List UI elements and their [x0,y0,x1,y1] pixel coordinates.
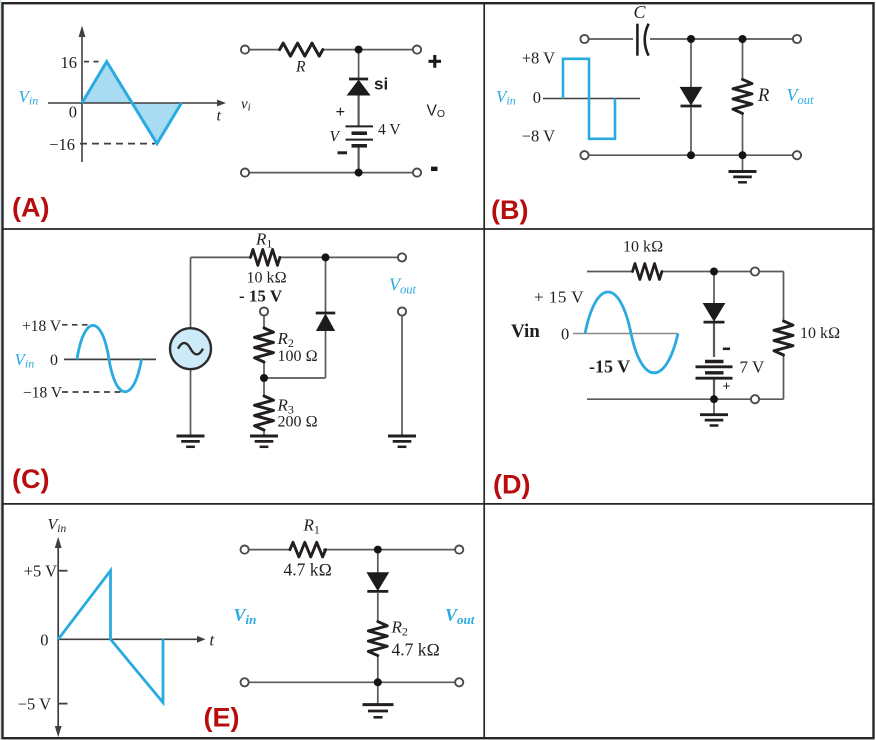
svg-text:+5 V: +5 V [24,562,57,581]
svg-text:4.7 kΩ: 4.7 kΩ [284,560,332,580]
svg-text:4 V: 4 V [378,122,401,139]
svg-text:−18 V: −18 V [23,384,63,401]
svg-text:Vin: Vin [511,321,540,342]
svg-text:4.7 kΩ: 4.7 kΩ [392,640,440,660]
svg-text:Vout: Vout [445,605,475,627]
svg-text:VO: VO [427,103,446,121]
svg-text:200 Ω: 200 Ω [278,414,318,431]
svg-text:(D): (D) [493,470,530,500]
svg-text:Vin: Vin [15,350,35,371]
svg-text:Vout: Vout [787,85,815,107]
svg-text:0: 0 [50,352,58,369]
svg-text:Vin: Vin [48,517,67,536]
svg-text:si: si [374,75,388,94]
svg-text:+ 15 V: + 15 V [534,288,584,307]
svg-text:10 kΩ: 10 kΩ [623,239,663,256]
svg-text:R2: R2 [277,329,294,350]
svg-text:(E): (E) [204,703,240,733]
svg-text:C: C [634,2,647,22]
svg-text:t: t [210,631,215,650]
svg-text:R2: R2 [391,618,408,639]
svg-text:Vin: Vin [19,87,39,108]
svg-text:V: V [330,129,341,146]
svg-text:R: R [757,86,769,106]
svg-text:0: 0 [533,88,541,107]
svg-text:(B): (B) [491,195,528,225]
svg-text:10 kΩ: 10 kΩ [247,270,287,287]
svg-text:- 15 V: - 15 V [239,287,283,306]
svg-text:(C): (C) [12,464,49,494]
svg-text:R1: R1 [255,230,272,251]
svg-text:Vout: Vout [389,275,417,297]
svg-text:10 kΩ: 10 kΩ [800,325,840,342]
svg-text:+: + [336,102,346,121]
svg-text:+: + [723,380,731,395]
svg-text:0: 0 [69,103,77,122]
svg-text:16: 16 [61,53,78,72]
svg-text:t: t [217,108,222,125]
svg-text:+18 V: +18 V [22,318,62,335]
svg-text:0: 0 [561,325,569,344]
svg-text:R: R [295,59,306,76]
svg-text:Vin: Vin [234,605,257,627]
svg-text:(A): (A) [12,193,49,223]
svg-text:7 V: 7 V [740,358,765,377]
svg-text:Vin: Vin [496,87,516,108]
svg-text:−5 V: −5 V [18,695,51,714]
svg-text:100 Ω: 100 Ω [278,348,318,365]
svg-text:−8 V: −8 V [522,127,555,146]
svg-text:+8 V: +8 V [522,49,555,68]
svg-text:-15 V: -15 V [589,357,630,377]
svg-text:0: 0 [40,631,48,650]
svg-text:vi: vi [241,97,251,114]
svg-text:−16: −16 [49,135,75,154]
svg-text:R1: R1 [303,516,320,537]
